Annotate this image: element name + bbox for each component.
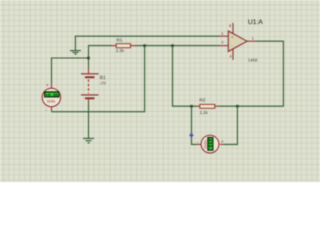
background grid [0, 0, 320, 182]
battery B1 [81, 68, 99, 103]
svg-text:+: + [231, 35, 234, 40]
wire: R1 left to battery-top node then to voltmeter top [52, 46, 113, 84]
voltmeter (bottom, rotated) [197, 135, 224, 153]
svg-text:R2: R2 [199, 98, 205, 103]
voltmeter (top left) [42, 83, 60, 113]
node junction at battery top [87, 57, 90, 60]
svg-text:1: 1 [252, 37, 254, 41]
blue origin marker on wire [189, 133, 194, 138]
node junction at x=144.6 [143, 44, 146, 47]
svg-text:2.2k: 2.2k [116, 48, 125, 53]
wire: meter2 right pin up to node x=237.4 [224, 106, 238, 144]
svg-text:-2V: -2V [100, 80, 107, 85]
svg-text:1458: 1458 [248, 58, 258, 63]
wire: battery top segment [88, 58, 90, 68]
svg-text:3: 3 [221, 32, 223, 36]
svg-text:+: + [46, 84, 49, 89]
op-amp U1:A [219, 23, 256, 60]
resistor R2 [196, 104, 219, 108]
wire: node x=172.3 down to R2 left [173, 46, 197, 107]
wire: ground1 up and right to op-amp pin3 (y=36.2) [75, 36, 219, 50]
node junction at x=191.5 on R2-left wire [190, 105, 193, 108]
wire: voltmeter bottom loop to node x=145 [52, 46, 145, 112]
svg-text:2: 2 [221, 40, 223, 44]
node junction at x=237.4 on R2-right wire [236, 105, 239, 108]
svg-text:+: + [221, 140, 224, 145]
ground (bottom, under battery) [83, 138, 94, 143]
svg-text:2.2k: 2.2k [200, 110, 209, 115]
svg-text:Volts: Volts [203, 140, 208, 149]
resistor R1 [112, 44, 136, 48]
svg-text:8: 8 [229, 24, 231, 28]
wire: node x=191.5 down to meter2 left pin [192, 106, 198, 144]
wire: battery bottom to ground2 [88, 103, 90, 139]
svg-text:R1: R1 [117, 37, 123, 42]
wire: R1 right to op-amp pin2 (y=45.6) [135, 45, 219, 47]
svg-text:4: 4 [230, 55, 232, 59]
node junction at x=172.5 [171, 44, 174, 47]
svg-text:Volts: Volts [47, 99, 56, 104]
wire: R2 right to op-amp output via x=283 [219, 41, 283, 106]
svg-text:U1:A: U1:A [248, 19, 263, 26]
ground (top, near R1) [70, 51, 81, 55]
